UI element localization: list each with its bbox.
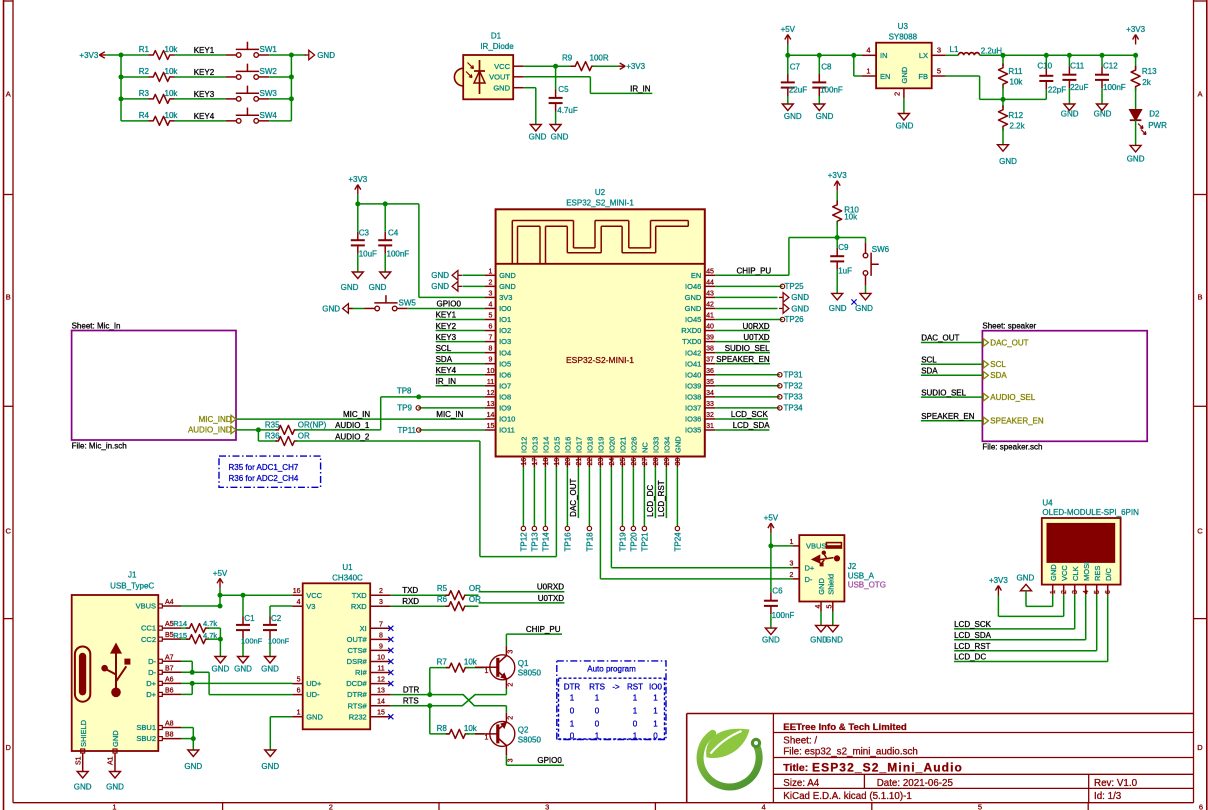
- svg-text:30: 30: [675, 458, 682, 466]
- svg-text:5: 5: [297, 677, 301, 684]
- resistor R8: [437, 724, 484, 738]
- svg-text:GND: GND: [261, 665, 279, 674]
- svg-text:VBUS: VBUS: [136, 602, 156, 611]
- svg-text:45: 45: [706, 268, 714, 275]
- wire +5V to VBUS J2: [771, 533, 793, 546]
- wire net KEY4: [121, 112, 226, 121]
- svg-text:3: 3: [489, 290, 493, 297]
- svg-text:RI#: RI#: [355, 668, 368, 677]
- svg-text:41: 41: [706, 313, 714, 320]
- svg-text:LCD_RST: LCD_RST: [954, 642, 991, 651]
- svg-text:KEY2: KEY2: [194, 68, 215, 77]
- junction FB R12: [1001, 97, 1006, 102]
- svg-text:U0RXD: U0RXD: [537, 583, 564, 592]
- svg-text:IO6: IO6: [499, 370, 511, 379]
- switch SW5: [364, 295, 416, 311]
- ground D1: [529, 125, 547, 142]
- svg-text:SW1: SW1: [260, 45, 278, 54]
- svg-text:GND: GND: [900, 66, 909, 83]
- ground SBU: [184, 750, 202, 771]
- svg-text:10k: 10k: [165, 45, 179, 54]
- svg-text:100nF: 100nF: [268, 637, 290, 646]
- wire J1 SBU nets: [181, 728, 196, 750]
- svg-text:+3V3: +3V3: [79, 51, 98, 60]
- ground D2: [1127, 145, 1145, 163]
- svg-text:DTR: DTR: [564, 683, 581, 692]
- svg-text:IO15: IO15: [553, 437, 562, 453]
- ground C3: [341, 272, 364, 292]
- svg-text:1: 1: [570, 720, 575, 729]
- ground C9: [829, 293, 847, 313]
- ground C12: [1094, 104, 1112, 119]
- wire SW6 branch: [837, 238, 865, 243]
- wire D1 VOUT IR_IN: [524, 77, 653, 94]
- ground C6: [762, 628, 780, 644]
- connector J1 USB_TypeC: [72, 571, 159, 751]
- note Auto program table: [557, 661, 666, 741]
- wire net U0TXD U2: [715, 333, 770, 342]
- svg-text:11: 11: [487, 379, 494, 386]
- wire output rail: [980, 54, 1136, 56]
- sheet pin SCL: [983, 360, 1006, 369]
- svg-text:IO13: IO13: [531, 437, 540, 453]
- power +3V3 U4: [989, 576, 1008, 596]
- svg-text:L1: L1: [950, 45, 959, 54]
- capacitor C6: [764, 546, 794, 628]
- svg-text:A: A: [6, 90, 11, 99]
- testpoint TP32: [715, 381, 803, 390]
- svg-text:GND: GND: [499, 282, 516, 291]
- svg-text:GND: GND: [306, 712, 323, 721]
- svg-text:GND: GND: [234, 665, 252, 674]
- svg-text:GND: GND: [816, 112, 834, 121]
- svg-text:U1: U1: [342, 563, 353, 572]
- svg-text:ESP32-S2-MINI-1: ESP32-S2-MINI-1: [566, 355, 634, 365]
- svg-text:D+: D+: [146, 679, 156, 688]
- wire V3 net: [270, 605, 292, 607]
- J1 bottom pins SHIELD GND: [75, 719, 120, 771]
- ic U1 CH340C: [303, 563, 371, 729]
- svg-text:GND: GND: [493, 83, 510, 92]
- svg-text:IO18: IO18: [586, 437, 595, 453]
- svg-text:2: 2: [1061, 590, 1068, 594]
- ground U1: [261, 750, 279, 771]
- U4 pins 1-6: [1049, 562, 1113, 595]
- svg-text:Date: 2021-06-25: Date: 2021-06-25: [877, 778, 954, 789]
- svg-text:3: 3: [1072, 590, 1079, 594]
- svg-text:IR_IN: IR_IN: [630, 84, 651, 93]
- svg-text:GND: GND: [317, 51, 335, 60]
- svg-text:3: 3: [508, 650, 515, 654]
- svg-text:D1: D1: [491, 31, 502, 40]
- svg-text:SCL: SCL: [990, 360, 1006, 369]
- svg-text:16: 16: [521, 458, 528, 466]
- svg-text:RXD: RXD: [351, 602, 367, 611]
- svg-text:KEY3: KEY3: [436, 333, 457, 342]
- svg-text:13: 13: [487, 401, 495, 408]
- svg-text:Q1: Q1: [518, 659, 529, 668]
- junctions +5V J1: [218, 593, 246, 609]
- svg-text:A6: A6: [165, 676, 174, 683]
- svg-text:R4: R4: [139, 111, 150, 120]
- svg-text:GND: GND: [829, 304, 847, 313]
- svg-text:C11: C11: [1070, 61, 1085, 70]
- wire pin23 to J2 D-: [600, 467, 792, 579]
- capacitor C10: [1037, 55, 1066, 99]
- ground C4: [369, 272, 391, 292]
- wire SW3 to gnd bus: [269, 98, 291, 100]
- junctions output rail: [1001, 53, 1139, 58]
- svg-text:12: 12: [487, 390, 495, 397]
- svg-text:8: 8: [379, 632, 383, 639]
- svg-text:DCD#: DCD#: [346, 679, 367, 688]
- wire SW6 to gnd: [865, 286, 867, 294]
- svg-text:IO8: IO8: [499, 392, 511, 401]
- svg-text:IO16: IO16: [564, 437, 573, 453]
- svg-text:GND: GND: [762, 636, 780, 645]
- svg-text:4.7k: 4.7k: [203, 619, 217, 628]
- svg-text:10: 10: [487, 368, 495, 375]
- svg-text:GND: GND: [999, 157, 1017, 166]
- wire net U0TXD lower: [479, 594, 565, 603]
- svg-text:Sheet: /: Sheet: /: [783, 735, 817, 746]
- testpoint TP24: [674, 467, 683, 552]
- wire SW2 to gnd bus: [269, 76, 291, 78]
- switch SW6: [863, 243, 889, 286]
- U2 bottom pins 16-30: [520, 436, 683, 467]
- svg-text:2: 2: [789, 572, 793, 579]
- svg-text:10k: 10k: [165, 67, 179, 76]
- hier label GND SW5: [322, 304, 364, 314]
- resistor R2: [139, 67, 179, 82]
- svg-text:USB_A: USB_A: [848, 571, 875, 580]
- wire CHIP_PU net U2: [715, 238, 837, 276]
- svg-text:CC2: CC2: [141, 635, 156, 644]
- svg-text:3: 3: [379, 599, 383, 606]
- svg-text:R13: R13: [1142, 67, 1157, 76]
- resistor R10: [833, 191, 860, 238]
- testpoint TP13: [531, 467, 540, 552]
- svg-text:5: 5: [489, 313, 493, 320]
- junctions 3V3 net: [355, 201, 387, 206]
- ic U2 ESP32_S2_MINI-1: [496, 188, 705, 456]
- wire DTR to R7: [430, 668, 449, 695]
- svg-text:DTR: DTR: [403, 686, 420, 695]
- junction RTS: [427, 703, 432, 708]
- ground J2 Shield: [825, 625, 843, 644]
- svg-text:CH340C: CH340C: [332, 573, 363, 582]
- svg-text:GND: GND: [1094, 110, 1112, 119]
- svg-text:KEY1: KEY1: [194, 46, 215, 55]
- ground C1: [234, 657, 252, 674]
- svg-text:SPEAKER_EN: SPEAKER_EN: [990, 417, 1044, 426]
- svg-text:R15: R15: [173, 631, 187, 640]
- svg-text:100R: 100R: [590, 54, 609, 63]
- power +3V3 C3 C4: [348, 175, 367, 195]
- svg-text:+3V3: +3V3: [348, 175, 367, 184]
- ground C2: [261, 657, 279, 674]
- svg-text:18: 18: [543, 458, 550, 466]
- svg-text:J2: J2: [848, 562, 857, 571]
- svg-text:VCC: VCC: [306, 591, 322, 600]
- svg-text:+3V3: +3V3: [989, 576, 1008, 585]
- svg-text:9: 9: [379, 643, 383, 650]
- svg-text:SPEAKER_EN: SPEAKER_EN: [921, 412, 975, 421]
- svg-text:IO11: IO11: [499, 426, 515, 435]
- J1 right pins: [136, 599, 181, 743]
- svg-text:C3: C3: [359, 229, 370, 238]
- svg-text:AUDIO_2: AUDIO_2: [335, 433, 370, 442]
- svg-text:2: 2: [508, 716, 515, 720]
- svg-text:LCD_RST: LCD_RST: [657, 480, 666, 517]
- svg-text:11: 11: [377, 666, 384, 673]
- wire net DAC_OUT speaker: [921, 334, 983, 343]
- svg-text:IO21: IO21: [619, 437, 628, 453]
- testpoint TP19: [619, 467, 628, 552]
- svg-text:25: 25: [620, 458, 627, 466]
- svg-text:IO1: IO1: [499, 315, 511, 324]
- svg-text:R35 for ADC1_CH7: R35 for ADC1_CH7: [229, 463, 299, 472]
- svg-text:GND: GND: [111, 730, 120, 747]
- svg-text:10k: 10k: [464, 724, 478, 733]
- svg-text:15: 15: [487, 423, 495, 430]
- svg-text:1: 1: [866, 67, 870, 76]
- svg-text:CC1: CC1: [141, 624, 156, 633]
- resistor R14: [173, 619, 217, 633]
- svg-text:J1: J1: [128, 571, 137, 580]
- capacitor C4: [378, 204, 409, 272]
- svg-text:26: 26: [631, 458, 638, 466]
- ground C8: [814, 104, 834, 121]
- svg-text:AUDIO_1: AUDIO_1: [335, 421, 370, 430]
- testpoint TP34: [715, 404, 803, 413]
- svg-text:1: 1: [789, 539, 793, 546]
- J1 USB icon: [75, 644, 130, 702]
- svg-text:1: 1: [633, 732, 638, 741]
- power +3V3 R9: [618, 62, 645, 71]
- svg-text:TXD: TXD: [402, 586, 418, 595]
- wire net KEY2: [121, 68, 226, 77]
- svg-text:10: 10: [377, 655, 385, 662]
- svg-text:RTS#: RTS#: [348, 701, 368, 710]
- resistor R12: [999, 99, 1026, 144]
- svg-text:LCD_SDA: LCD_SDA: [733, 421, 771, 430]
- svg-text:KiCad E.D.A. kicad (5.1.10)-1: KiCad E.D.A. kicad (5.1.10)-1: [783, 791, 912, 802]
- svg-text:12: 12: [377, 677, 385, 684]
- wire +5V rail to U3 IN: [788, 45, 862, 56]
- svg-text:+5V: +5V: [764, 514, 779, 523]
- svg-text:3: 3: [545, 803, 549, 810]
- svg-text:VOUT: VOUT: [489, 72, 510, 81]
- title block: [687, 714, 1194, 803]
- svg-text:S8050: S8050: [518, 735, 542, 744]
- svg-text:DAC_OUT: DAC_OUT: [990, 338, 1028, 347]
- svg-text:GND: GND: [685, 293, 702, 302]
- svg-text:KEY3: KEY3: [194, 90, 215, 99]
- svg-text:DTR#: DTR#: [347, 690, 367, 699]
- hier label GND pin42: [715, 304, 809, 314]
- svg-text:6: 6: [1199, 803, 1203, 810]
- svg-text:B: B: [1197, 293, 1202, 302]
- power +3V3 R10: [828, 171, 847, 191]
- svg-text:22uF: 22uF: [1070, 83, 1088, 92]
- wire net LCD_RST U2: [657, 467, 666, 518]
- svg-text:D-: D-: [805, 575, 813, 584]
- svg-text:IO26: IO26: [630, 437, 639, 453]
- svg-text:24: 24: [609, 458, 616, 466]
- svg-text:4.7uF: 4.7uF: [557, 106, 578, 115]
- svg-text:SCL: SCL: [921, 356, 937, 365]
- svg-text:10k: 10k: [165, 111, 179, 120]
- svg-text:22uF: 22uF: [789, 86, 807, 95]
- capacitor C3: [351, 204, 377, 272]
- svg-text:1: 1: [112, 803, 116, 810]
- svg-text:GND: GND: [825, 636, 843, 645]
- capacitor C2: [263, 606, 290, 657]
- testpoint TP12: [520, 467, 529, 552]
- svg-text:+5V: +5V: [213, 569, 228, 578]
- sheet Mic_In: [72, 321, 236, 450]
- svg-text:IO34: IO34: [663, 437, 672, 453]
- svg-text:GND: GND: [106, 783, 124, 792]
- svg-text:XI: XI: [360, 624, 367, 633]
- resistor R1: [139, 45, 179, 60]
- sheet pin MIC_IND: [199, 415, 236, 424]
- wire net LCD_RST U4: [954, 595, 1097, 651]
- svg-text:IO33: IO33: [652, 437, 661, 453]
- wire net KEY2 U2: [436, 322, 485, 331]
- svg-text:Id: 1/3: Id: 1/3: [1094, 791, 1122, 802]
- svg-text:CTS#: CTS#: [348, 646, 368, 655]
- svg-text:4: 4: [762, 803, 766, 810]
- wire 3V3 net to pin3: [358, 195, 485, 298]
- svg-text:IO0: IO0: [499, 304, 511, 313]
- junctions +5V rail: [785, 53, 856, 58]
- resistor R11: [999, 55, 1024, 99]
- svg-text:RTS: RTS: [403, 697, 419, 706]
- svg-text:MIC_IND: MIC_IND: [199, 415, 232, 424]
- svg-text:4: 4: [489, 301, 493, 308]
- wire net SPEAKER_EN speaker: [921, 412, 983, 421]
- testpoint TP16: [564, 467, 573, 552]
- svg-text:TP24: TP24: [674, 532, 683, 552]
- svg-text:3: 3: [937, 46, 941, 55]
- svg-text:OR: OR: [298, 432, 310, 441]
- svg-text:D/C: D/C: [1104, 568, 1113, 582]
- hier label GND pin1: [431, 271, 485, 281]
- svg-text:8: 8: [489, 346, 493, 353]
- svg-text:SUDIO_SEL: SUDIO_SEL: [725, 344, 770, 353]
- resistor R6: [437, 595, 481, 611]
- svg-text:IO36: IO36: [685, 415, 701, 424]
- ground SW6: [855, 293, 873, 313]
- capacitor C7: [781, 55, 807, 104]
- wire net U0RXD U2: [715, 322, 770, 331]
- capacitor C5: [549, 66, 578, 124]
- svg-text:IO2: IO2: [499, 326, 511, 335]
- svg-text:TP11: TP11: [397, 426, 416, 435]
- wire J1 D+ nets: [181, 681, 292, 695]
- svg-text:SDA: SDA: [436, 355, 453, 364]
- svg-text:C12: C12: [1103, 61, 1118, 70]
- svg-text:KEY4: KEY4: [436, 366, 457, 375]
- svg-text:Sheet: Mic_In: Sheet: Mic_In: [72, 321, 121, 330]
- svg-text:GND: GND: [431, 282, 449, 291]
- sheet pin SPEAKER_EN: [983, 417, 1043, 426]
- wire keys left bus: [106, 55, 121, 121]
- wire net RXD: [391, 597, 449, 606]
- wire U4 GND: [1026, 591, 1053, 607]
- svg-text:SW6: SW6: [872, 245, 890, 254]
- svg-text:2: 2: [329, 803, 333, 810]
- svg-text:100nF: 100nF: [1103, 83, 1126, 92]
- svg-text:SBU2: SBU2: [136, 734, 156, 743]
- svg-text:TP25: TP25: [785, 282, 805, 291]
- svg-text:14: 14: [487, 412, 495, 419]
- svg-text:TP33: TP33: [784, 392, 804, 401]
- svg-text:IO10: IO10: [499, 415, 515, 424]
- svg-text:D-: D-: [148, 668, 156, 677]
- svg-text:RXD0: RXD0: [681, 326, 701, 335]
- wire R9 to +3V3: [593, 65, 618, 67]
- ground U4 inverted: [1017, 574, 1035, 591]
- svg-text:10k: 10k: [464, 658, 478, 667]
- svg-text:Q2: Q2: [518, 726, 529, 735]
- svg-text:C4: C4: [388, 229, 399, 238]
- svg-text:+3V3: +3V3: [626, 62, 645, 71]
- svg-text:TP12: TP12: [520, 532, 529, 552]
- svg-text:TP19: TP19: [619, 532, 628, 552]
- wire SW4 to gnd bus: [269, 120, 291, 122]
- svg-text:31: 31: [706, 423, 714, 430]
- sheet pin AUDIO_SEL: [983, 393, 1035, 402]
- svg-text:5: 5: [827, 605, 834, 609]
- svg-text:GND: GND: [784, 112, 802, 121]
- capacitor C11: [1062, 55, 1088, 104]
- wire net LCD_SDA U2: [715, 421, 770, 430]
- svg-text:VCC: VCC: [494, 62, 510, 71]
- svg-text:DAC_OUT: DAC_OUT: [921, 334, 959, 343]
- svg-text:C: C: [1197, 527, 1203, 536]
- svg-text:Shield: Shield: [826, 574, 835, 595]
- svg-text:IO4: IO4: [499, 348, 511, 357]
- svg-text:38: 38: [706, 346, 714, 353]
- svg-text:5: 5: [1094, 590, 1101, 594]
- svg-text:CHIP_PU: CHIP_PU: [737, 267, 772, 276]
- wire net LCD_SCK U2: [715, 410, 768, 419]
- ground R14 R15: [212, 657, 230, 674]
- svg-text:CHIP_PU: CHIP_PU: [526, 625, 561, 634]
- svg-text:A7: A7: [165, 654, 174, 661]
- wire net KEY1: [121, 46, 226, 55]
- svg-text:R2: R2: [139, 67, 150, 76]
- wire net LCD_SCK U4: [954, 595, 1075, 629]
- svg-text:Auto program: Auto program: [587, 665, 636, 674]
- ground C7: [782, 104, 802, 121]
- svg-text:LX: LX: [919, 51, 928, 60]
- svg-text:USB_OTG: USB_OTG: [848, 580, 886, 589]
- testpoint TP21: [641, 467, 650, 552]
- svg-text:C: C: [5, 527, 11, 536]
- svg-text:GND: GND: [369, 283, 387, 292]
- svg-text:1: 1: [1050, 590, 1057, 594]
- svg-text:TP31: TP31: [784, 370, 804, 379]
- svg-text:GND: GND: [341, 283, 359, 292]
- svg-text:GND: GND: [817, 578, 826, 595]
- resistor R4: [139, 111, 179, 126]
- svg-text:GND: GND: [431, 271, 449, 280]
- svg-text:FB: FB: [918, 72, 928, 81]
